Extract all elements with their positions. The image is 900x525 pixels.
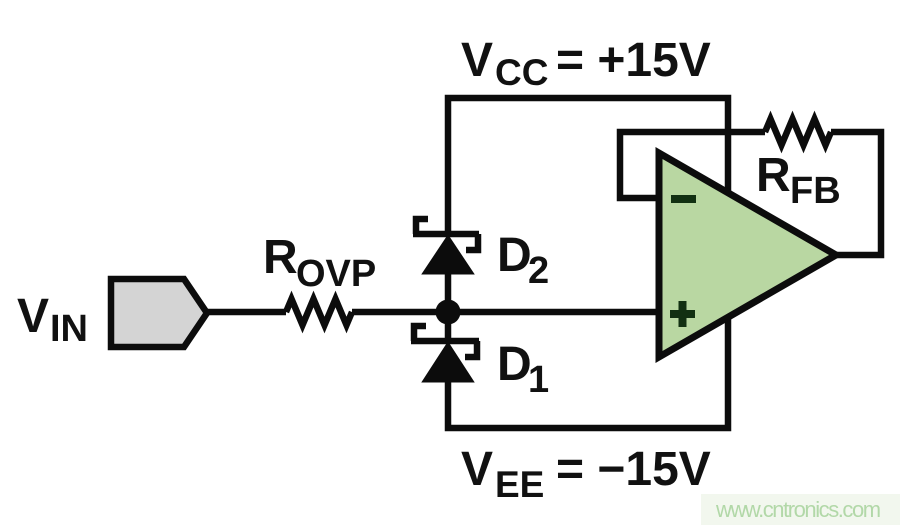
svg-text:IN: IN bbox=[50, 308, 88, 350]
resistor R_OVP zigzag bbox=[286, 299, 352, 325]
svg-text:CC: CC bbox=[495, 52, 548, 93]
svg-text:OVP: OVP bbox=[296, 253, 376, 295]
svg-text:V: V bbox=[17, 290, 49, 343]
VEE rail bottom with left rise from D1 and right rise to op-amp bbox=[448, 310, 728, 428]
svg-text:V: V bbox=[461, 34, 493, 87]
svg-text:= +15V: = +15V bbox=[556, 34, 711, 87]
svg-text:2: 2 bbox=[528, 250, 549, 292]
wire D2 to node bbox=[445, 273, 452, 305]
svg-text:EE: EE bbox=[495, 464, 544, 505]
op-amp U1 triangle bbox=[659, 153, 836, 357]
wire node to D1 bbox=[445, 312, 452, 338]
input connector VIN (gray pentagon) bbox=[111, 279, 207, 347]
svg-text:www.cntronics.com: www.cntronics.com bbox=[715, 497, 880, 522]
svg-text:V: V bbox=[461, 443, 493, 496]
wire feedback loop: minus stub, up, across bbox=[620, 132, 765, 198]
wire feedback right side down to output bbox=[831, 132, 881, 255]
diode D2 zener (cathode bar with hooks) bbox=[413, 219, 479, 250]
wire main horizontal VIN to op-amp + input bbox=[203, 309, 286, 316]
svg-text:FB: FB bbox=[790, 170, 841, 212]
diode D2 triangle bbox=[424, 237, 472, 273]
watermark background box bbox=[701, 494, 900, 525]
svg-text:R: R bbox=[756, 149, 791, 202]
node junction dot bbox=[436, 300, 461, 325]
op-amp plus sign bbox=[670, 301, 695, 327]
diode D1 zener (cathode bar with hooks) bbox=[411, 326, 479, 357]
svg-text:D: D bbox=[497, 338, 532, 391]
svg-text:D: D bbox=[497, 229, 532, 282]
svg-text:= −15V: = −15V bbox=[556, 443, 711, 496]
VCC rail top with left drop to D2 and right drop to op-amp bbox=[448, 98, 728, 231]
op-amp minus sign bbox=[671, 195, 696, 203]
diode D1 triangle bbox=[424, 344, 472, 381]
svg-text:R: R bbox=[263, 231, 298, 284]
resistor R_FB zigzag bbox=[765, 119, 831, 145]
wire node to + input bbox=[352, 309, 662, 316]
svg-text:1: 1 bbox=[528, 359, 549, 401]
